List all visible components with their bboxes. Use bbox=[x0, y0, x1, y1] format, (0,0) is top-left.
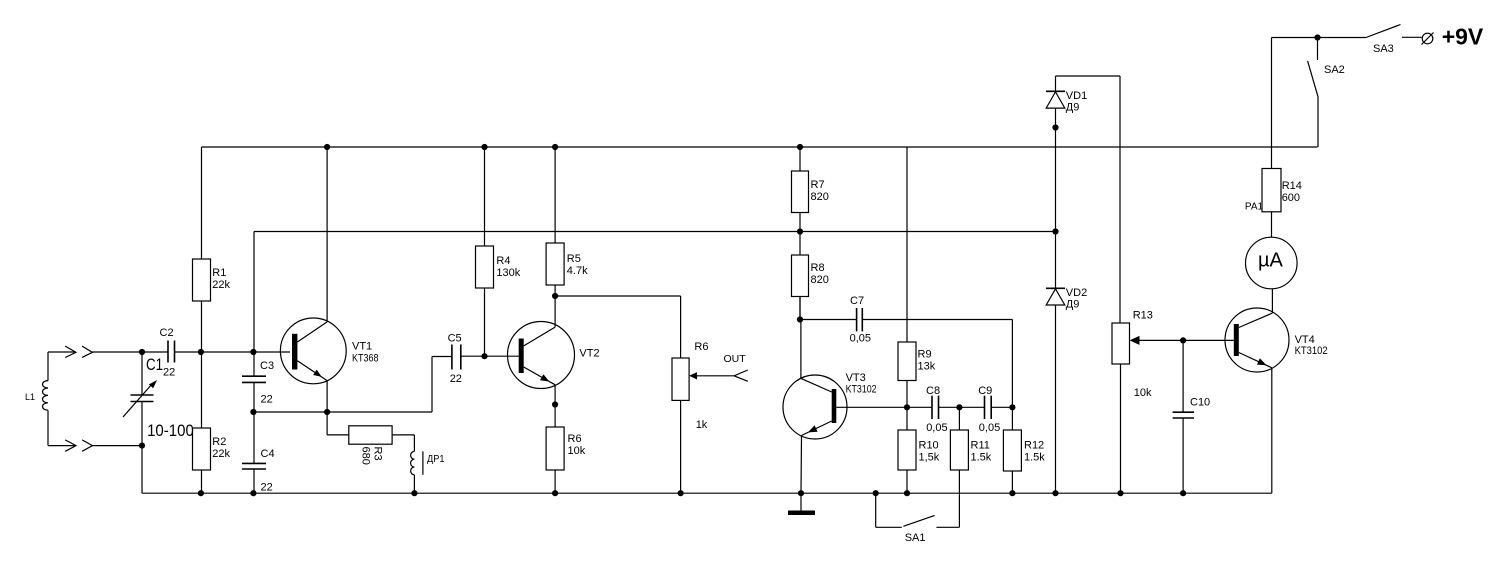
svg-text:130k: 130k bbox=[496, 267, 520, 279]
svg-text:0,05: 0,05 bbox=[926, 422, 947, 434]
wire antenna bottom to C1 node bbox=[92, 445, 142, 447]
node top bus R5 bbox=[552, 144, 558, 150]
svg-text:R1: R1 bbox=[212, 267, 226, 279]
svg-text:R14: R14 bbox=[1282, 180, 1302, 192]
svg-text:C8: C8 bbox=[926, 385, 940, 397]
node second bus R7 bbox=[797, 228, 803, 234]
node bus R13 bbox=[1117, 490, 1123, 496]
svg-text:VT2: VT2 bbox=[579, 348, 599, 360]
capacitor C2 bbox=[168, 341, 175, 363]
label SA2 bbox=[1324, 64, 1345, 76]
svg-text:SA3: SA3 bbox=[1373, 43, 1394, 55]
variable capacitor C1 bbox=[123, 352, 157, 493]
wire bottom ground bus bbox=[142, 492, 1272, 494]
label VT1 bbox=[352, 340, 379, 364]
wire VT1 emitter bbox=[326, 381, 328, 412]
label VT4 bbox=[1295, 334, 1328, 357]
label C9 value bbox=[979, 422, 1000, 434]
svg-text:C10: C10 bbox=[1190, 397, 1210, 409]
svg-text:22: 22 bbox=[163, 367, 175, 379]
label C5 value bbox=[450, 373, 462, 385]
wire antenna top to C2 bbox=[92, 351, 168, 353]
svg-text:VD1: VD1 bbox=[1066, 90, 1087, 102]
resistor R5 bbox=[546, 147, 564, 327]
wire emitter node to R3 bbox=[327, 412, 349, 435]
svg-text:0,05: 0,05 bbox=[979, 422, 1000, 434]
potentiometer R13 bbox=[1112, 323, 1234, 493]
node bus pot bbox=[678, 490, 684, 496]
label C7 value bbox=[850, 333, 871, 345]
svg-text:C4: C4 bbox=[261, 448, 275, 460]
label R6 pot bbox=[694, 341, 708, 353]
svg-text:22k: 22k bbox=[212, 279, 230, 291]
node VT1 emitter bbox=[324, 409, 330, 415]
label R13 bbox=[1133, 310, 1153, 322]
label C7 bbox=[850, 295, 864, 307]
capacitor C3 bbox=[242, 352, 266, 412]
label VD2 bbox=[1066, 287, 1087, 310]
label C2 bbox=[160, 327, 174, 339]
node VD1 lone bbox=[1052, 124, 1058, 130]
wire VT3 collector bbox=[799, 297, 802, 379]
node bus R10 bbox=[904, 490, 910, 496]
svg-text:22: 22 bbox=[261, 482, 273, 494]
label R6 pot value bbox=[696, 419, 708, 431]
node R11 top bbox=[956, 404, 962, 410]
wire VT4 emitter bbox=[1271, 368, 1273, 493]
label C1 bbox=[146, 356, 163, 374]
svg-text:R7: R7 bbox=[811, 179, 825, 191]
antenna lower terminal bbox=[48, 440, 92, 451]
capacitor C4 bbox=[242, 412, 266, 493]
svg-text:PA1: PA1 bbox=[1245, 202, 1264, 213]
node R13 wiper C10 bbox=[1180, 337, 1186, 343]
label C8 value bbox=[926, 422, 947, 434]
svg-text:0,05: 0,05 bbox=[850, 333, 871, 345]
node VT2 collector bbox=[552, 293, 558, 299]
svg-text:R10: R10 bbox=[919, 440, 939, 452]
resistor R2 bbox=[193, 352, 211, 493]
wire VT2 emitter bbox=[554, 385, 556, 427]
svg-text:R13: R13 bbox=[1133, 310, 1153, 322]
label R2 bbox=[212, 436, 230, 460]
wire emitter node to C5 bbox=[253, 357, 452, 413]
capacitor C10 bbox=[1173, 340, 1194, 493]
svg-text:KT3102: KT3102 bbox=[846, 384, 877, 396]
inductor DR1 bbox=[411, 451, 423, 493]
svg-text:C2: C2 bbox=[160, 327, 174, 339]
label C4 value bbox=[261, 482, 273, 494]
svg-text:10k: 10k bbox=[568, 445, 586, 457]
node C3 base bbox=[250, 349, 256, 355]
svg-text:820: 820 bbox=[811, 191, 829, 203]
svg-text:C5: C5 bbox=[448, 332, 462, 344]
node VT2 emitter bbox=[552, 401, 558, 407]
node C3 C4 bbox=[250, 409, 256, 415]
svg-text:C3: C3 bbox=[260, 360, 274, 372]
svg-text:R3: R3 bbox=[372, 447, 384, 461]
resistor R12 bbox=[1003, 407, 1021, 493]
resistor R7 bbox=[792, 147, 809, 232]
wire VT2 collector to pot bbox=[555, 296, 681, 358]
svg-text:680: 680 bbox=[360, 447, 372, 465]
label C2 value bbox=[163, 367, 175, 379]
label VD1 bbox=[1066, 90, 1087, 114]
label C8 bbox=[926, 385, 940, 397]
label C9 bbox=[978, 385, 992, 397]
svg-text:C9: C9 bbox=[978, 385, 992, 397]
diode VD1 bbox=[1046, 76, 1065, 232]
wire VT3 emitter bbox=[800, 436, 803, 494]
wire C5 to VT2 base bbox=[461, 355, 519, 357]
svg-text:R8: R8 bbox=[811, 262, 825, 274]
transistor VT2 bbox=[508, 322, 575, 389]
node bus DR1 bbox=[411, 490, 417, 496]
node R12 top bbox=[1009, 404, 1015, 410]
svg-text:820: 820 bbox=[811, 274, 829, 286]
label SA1 bbox=[905, 532, 926, 544]
svg-text:1,5k: 1,5k bbox=[919, 452, 940, 464]
svg-text:R9: R9 bbox=[918, 349, 932, 361]
label SA3 bbox=[1373, 43, 1394, 55]
label VT2 bbox=[579, 348, 599, 360]
resistor R4 bbox=[476, 147, 494, 356]
svg-text:VD2: VD2 bbox=[1066, 287, 1087, 299]
transistor VT3 bbox=[783, 375, 847, 439]
label R12 bbox=[1024, 440, 1045, 464]
svg-text:10-100: 10-100 bbox=[147, 421, 194, 440]
wire top bus bbox=[202, 146, 1318, 148]
label R9 bbox=[918, 349, 936, 373]
resistor R8 bbox=[792, 232, 809, 320]
svg-text:KT368: KT368 bbox=[352, 353, 379, 365]
label R14 bbox=[1282, 180, 1302, 204]
node bus C4 bbox=[250, 490, 256, 496]
label PA1 bbox=[1245, 202, 1264, 213]
label R10 bbox=[919, 440, 940, 464]
node bus SA1 bbox=[873, 490, 879, 496]
label C1 value 10-100 bbox=[147, 421, 194, 440]
label R4 bbox=[496, 255, 520, 279]
svg-text:22k: 22k bbox=[212, 448, 230, 460]
resistor R11 bbox=[950, 407, 968, 527]
node top bus R4 bbox=[481, 144, 487, 150]
node bus R6 bbox=[552, 490, 558, 496]
svg-text:OUT: OUT bbox=[724, 353, 747, 365]
wire meter to R14 bbox=[1271, 212, 1273, 237]
label L1 bbox=[25, 392, 35, 402]
terminal +9V bbox=[1422, 33, 1434, 45]
label C10 bbox=[1190, 397, 1210, 409]
potentiometer R6 bbox=[672, 358, 748, 493]
node R9 base bbox=[904, 404, 910, 410]
node R4 base bbox=[481, 353, 487, 359]
svg-text:600: 600 bbox=[1282, 192, 1300, 204]
svg-text:R4: R4 bbox=[496, 255, 510, 267]
wire VT3 base bbox=[836, 406, 907, 408]
svg-text:C7: C7 bbox=[850, 295, 864, 307]
svg-text:C1: C1 bbox=[146, 356, 163, 374]
svg-text:1.5k: 1.5k bbox=[971, 452, 992, 464]
svg-text:Д9: Д9 bbox=[1066, 101, 1080, 113]
resistor R3 bbox=[349, 426, 392, 444]
svg-text:SA1: SA1 bbox=[905, 532, 926, 544]
resistor R14 bbox=[1262, 38, 1281, 212]
svg-text:SA2: SA2 bbox=[1324, 64, 1345, 76]
svg-text:1k: 1k bbox=[696, 419, 708, 431]
label C4 bbox=[261, 448, 275, 460]
capacitor C5 bbox=[452, 345, 461, 370]
svg-text:+9V: +9V bbox=[1442, 23, 1484, 49]
label C5 bbox=[448, 332, 462, 344]
capacitor C7 bbox=[800, 308, 1012, 331]
svg-text:R6: R6 bbox=[694, 341, 708, 353]
svg-text:L1: L1 bbox=[25, 392, 35, 402]
diode VD2 bbox=[1046, 232, 1065, 494]
svg-text:1.5k: 1.5k bbox=[1024, 452, 1045, 464]
svg-text:R11: R11 bbox=[971, 440, 990, 452]
node C1 bottom bbox=[139, 443, 145, 449]
resistor R6 emitter bbox=[546, 427, 564, 493]
wire R3 to DR1 bbox=[392, 435, 414, 452]
label R3 bbox=[360, 447, 384, 465]
capacitor C8 bbox=[907, 396, 959, 419]
resistor R9 bbox=[898, 147, 916, 407]
label R13 value bbox=[1134, 387, 1152, 399]
svg-text:µA: µA bbox=[1258, 250, 1284, 272]
wire VD top loop bbox=[1056, 76, 1121, 323]
label C3 value bbox=[261, 394, 273, 406]
node VT3 collector C7 bbox=[797, 316, 803, 322]
node bus VT3 bbox=[798, 490, 804, 496]
wire VT1 collector bbox=[326, 147, 328, 322]
svg-text:VT3: VT3 bbox=[846, 372, 866, 384]
node second bus VD bbox=[1052, 228, 1058, 234]
label R7 bbox=[811, 179, 829, 203]
node bus R12 bbox=[1009, 490, 1015, 496]
wire second bus bbox=[254, 232, 1056, 353]
switch SA1 bbox=[876, 493, 960, 527]
wire VT4 collector to meter bbox=[1271, 289, 1273, 313]
switch SA2 bbox=[1308, 38, 1319, 148]
meter PA1 bbox=[1246, 237, 1298, 289]
node bus R2 bbox=[198, 490, 204, 496]
label R8 bbox=[811, 262, 829, 286]
ground bbox=[788, 493, 815, 515]
wire +9V feed bbox=[1272, 37, 1318, 39]
svg-text:R6: R6 bbox=[568, 433, 582, 445]
svg-text:22: 22 bbox=[261, 394, 273, 406]
wire C2 to R1 node bbox=[175, 351, 291, 353]
label VT3 bbox=[846, 372, 877, 395]
svg-text:VT1: VT1 bbox=[352, 340, 372, 352]
label C3 bbox=[260, 360, 274, 372]
node bus VD2 bbox=[1052, 490, 1058, 496]
label R5 bbox=[567, 253, 588, 277]
node bus C10 bbox=[1180, 490, 1186, 496]
svg-text:Д9: Д9 bbox=[1066, 298, 1080, 310]
svg-text:R2: R2 bbox=[212, 436, 226, 448]
svg-text:13k: 13k bbox=[918, 361, 936, 373]
label R1 bbox=[212, 267, 230, 291]
node top bus VT1 bbox=[324, 144, 330, 150]
transistor VT4 bbox=[1225, 308, 1289, 372]
svg-text:ДР1: ДР1 bbox=[427, 453, 445, 465]
node SA3 SA2 bbox=[1314, 34, 1320, 40]
label R11 bbox=[971, 440, 992, 464]
resistor R10 bbox=[898, 407, 916, 493]
label R6 emitter bbox=[568, 433, 586, 457]
svg-text:4.7k: 4.7k bbox=[567, 265, 588, 277]
inductor L1 bbox=[42, 352, 48, 446]
node R1 R2 bbox=[198, 349, 204, 355]
label +9V bbox=[1442, 23, 1484, 49]
resistor R1 bbox=[193, 147, 211, 352]
antenna upper terminal bbox=[48, 346, 92, 357]
svg-text:R5: R5 bbox=[567, 253, 581, 265]
node C1 top bbox=[139, 349, 145, 355]
label DR1 bbox=[427, 453, 445, 465]
transistor VT1 bbox=[280, 318, 346, 384]
svg-text:KT3102: KT3102 bbox=[1295, 345, 1328, 357]
svg-text:10k: 10k bbox=[1134, 387, 1152, 399]
svg-text:R12: R12 bbox=[1024, 440, 1044, 452]
label OUT bbox=[724, 353, 747, 365]
switch SA3 bbox=[1318, 25, 1422, 38]
svg-text:22: 22 bbox=[450, 373, 462, 385]
capacitor C9 bbox=[959, 396, 1012, 419]
wire C7 feedback down to R12 node bbox=[1011, 320, 1013, 408]
node top bus R7 bbox=[797, 144, 803, 150]
